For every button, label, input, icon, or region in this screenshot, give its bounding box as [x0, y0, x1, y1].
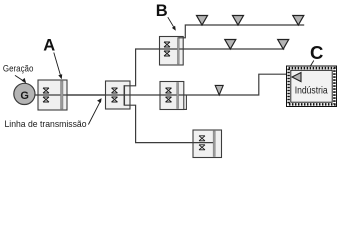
industry building C [287, 66, 337, 107]
svg-text:C: C [310, 42, 323, 63]
load triangle 3 on top line [293, 16, 304, 26]
label B [156, 2, 168, 20]
industry input triangle [292, 73, 301, 82]
label A [43, 37, 55, 55]
transformer (bottom) [193, 130, 222, 158]
transformer A [38, 80, 67, 110]
load triangle 1 on top line [197, 16, 208, 26]
arrow B to transformer B [168, 17, 176, 31]
load triangle 2 on top line [233, 16, 244, 26]
wire central transformer up-branch to transformer B [124, 49, 159, 86]
svg-text:Indústria: Indústria [295, 85, 328, 96]
label C [310, 42, 323, 63]
svg-text:Geração: Geração [3, 64, 34, 74]
wire transformer B second distribution line [183, 48, 284, 50]
wire transformer B to top distribution line [178, 25, 304, 38]
load triangle 5 on second line [278, 40, 289, 50]
arrow Geração to generator [15, 75, 26, 83]
transformer B [160, 37, 184, 66]
transformer (middle right) [160, 82, 186, 110]
arrow Linha de transmissão to wire [88, 98, 101, 124]
svg-text:G: G [20, 90, 29, 102]
wire from transformer A to central transformer [67, 94, 105, 96]
wire main line generator to central transformer [35, 94, 124, 96]
label Linha de transmissão [5, 119, 87, 129]
transformer (central substation) [106, 81, 131, 109]
load triangle 6 on middle line [215, 85, 223, 95]
load triangle 4 on second line [225, 40, 236, 50]
wire central transformer down-branch to bottom transformer [124, 105, 214, 142]
svg-text:A: A [43, 37, 55, 55]
arrow C to industry [306, 61, 314, 75]
label Geração [3, 64, 34, 74]
svg-text:Linha de transmissão: Linha de transmissão [5, 119, 87, 129]
generator G [14, 83, 35, 104]
arrow A to transformer bar [54, 53, 62, 80]
wire central transformer mid-branch toward industry [124, 74, 292, 95]
svg-text:B: B [156, 2, 168, 20]
